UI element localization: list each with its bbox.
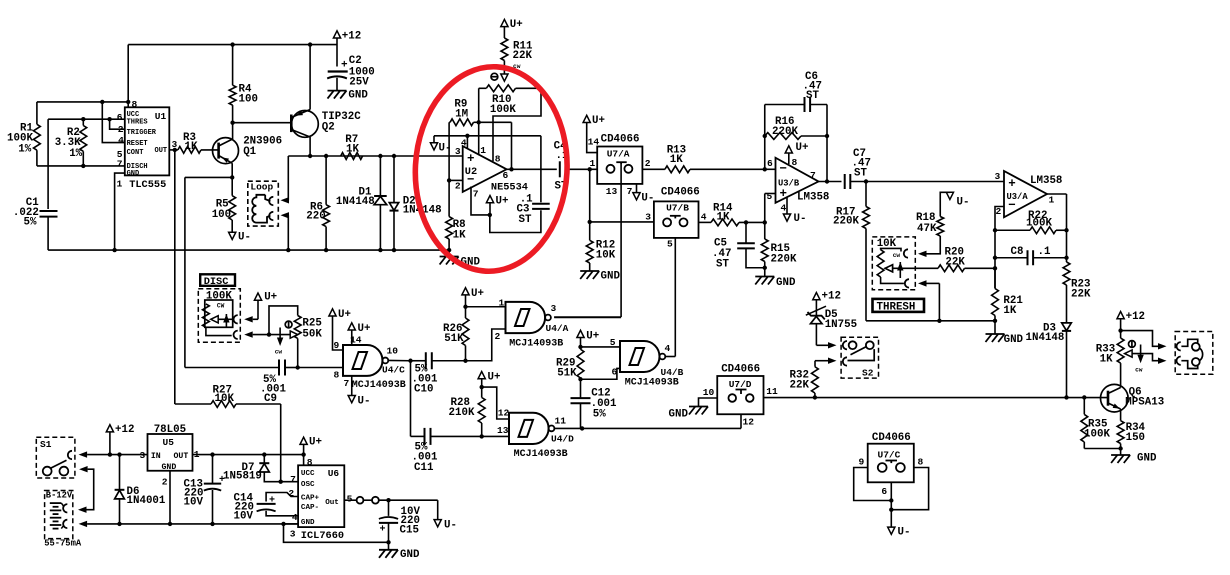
junction C13 top <box>210 452 214 456</box>
svg-text:5%: 5% <box>24 217 37 229</box>
svg-text:+: + <box>467 152 475 166</box>
junction R25 wiper node <box>267 332 271 336</box>
junction pin7/V+ <box>488 213 492 217</box>
junction R2 bottom <box>81 164 85 168</box>
wire U4/B pin6 <box>581 368 621 379</box>
svg-text:3: 3 <box>290 529 296 540</box>
junction R15 top / +in <box>763 220 767 224</box>
resistor R12 <box>586 240 593 263</box>
resistor R5 <box>229 196 236 220</box>
junction D6 top <box>117 452 121 456</box>
svg-text:THRESH: THRESH <box>877 302 916 314</box>
junction R9/R10/feedback <box>477 120 481 124</box>
junction R20/R21 node <box>993 266 997 270</box>
svg-text:5: 5 <box>767 191 773 202</box>
svg-text:100K: 100K <box>1026 218 1052 230</box>
wire R16 right leg <box>826 105 828 182</box>
wire CAP+ jog <box>266 493 298 502</box>
junction D7 top <box>262 452 266 456</box>
svg-text:10K: 10K <box>215 393 235 405</box>
svg-text:4: 4 <box>701 212 707 223</box>
svg-text:4: 4 <box>781 203 787 214</box>
junction R21 bottom <box>993 319 997 323</box>
svg-text:4: 4 <box>665 343 671 354</box>
wire U4/C pin8 <box>298 367 343 369</box>
capacitor C6 <box>765 104 805 106</box>
svg-text:22K: 22K <box>790 380 810 392</box>
junction feedback/output <box>509 167 513 171</box>
svg-text:IN: IN <box>151 452 161 461</box>
svg-text:12: 12 <box>498 408 510 419</box>
wire R23 to D3 <box>1066 285 1068 323</box>
junction V+/out rail <box>301 452 305 456</box>
transistor Q6 MPSA13 <box>1101 384 1129 412</box>
svg-text:cw: cw <box>893 252 901 259</box>
ground below R21 <box>986 333 1005 335</box>
ground below R15 <box>755 276 774 278</box>
svg-text:GND: GND <box>669 409 689 421</box>
resistor R9 <box>450 119 473 126</box>
junction R29 top <box>578 345 582 349</box>
DISC pot element <box>202 304 209 327</box>
svg-text:U+: U+ <box>338 309 351 321</box>
junction R28 top <box>480 385 484 389</box>
svg-text:GND: GND <box>1004 334 1024 346</box>
wire U3/A -in <box>995 207 1004 289</box>
ground below Q6 <box>1120 449 1122 456</box>
svg-text:U-: U- <box>957 197 970 209</box>
switch S2 dashed box <box>841 337 878 378</box>
resistor R27 <box>280 404 282 482</box>
power V+ above R11 <box>501 19 508 26</box>
svg-text:1K: 1K <box>346 144 359 156</box>
svg-text:GND: GND <box>601 271 621 283</box>
junction R15 bottom <box>763 266 767 270</box>
junction pin4 stub <box>465 134 469 138</box>
battery contacts <box>63 504 67 512</box>
DISC pot wiper <box>211 316 219 323</box>
capacitor C4 <box>559 161 561 177</box>
power V+ above R28 <box>478 372 485 379</box>
resistor R13 <box>642 168 665 170</box>
svg-text:100: 100 <box>212 209 231 221</box>
wire OUT pin3 <box>169 149 178 151</box>
junction R6 bottom <box>324 248 328 252</box>
svg-text:Loop: Loop <box>250 182 273 193</box>
junction Q2 collector / main wire <box>308 154 312 158</box>
diode D7 1N5819 <box>263 455 265 463</box>
wire inverting input <box>449 179 463 181</box>
wire U7/C pin9 loop <box>854 468 892 501</box>
power +12 at supply <box>106 425 113 432</box>
junction R28 bottom <box>480 434 484 438</box>
wire feedback to output <box>479 121 512 123</box>
wire C7 to U3/A <box>851 181 1005 183</box>
svg-text:1N4148: 1N4148 <box>336 196 375 208</box>
capacitor C5 <box>745 222 747 243</box>
svg-text:TLC555: TLC555 <box>129 179 166 191</box>
svg-text:2: 2 <box>996 206 1002 217</box>
svg-text:3: 3 <box>455 146 461 157</box>
svg-text:1: 1 <box>480 145 486 156</box>
nand gate U4/A MCJ14093B <box>506 302 546 333</box>
power V+ above R29 <box>577 330 584 337</box>
capacitor C11 <box>424 428 426 445</box>
junction R25 bottom <box>296 365 300 369</box>
svg-text:22K: 22K <box>1071 289 1091 301</box>
svg-text:U-: U- <box>641 193 654 205</box>
label DISC boxed <box>200 274 235 286</box>
power V+ at U3/B <box>785 146 792 153</box>
svg-text:220K: 220K <box>772 126 798 138</box>
junction R2 top <box>81 117 85 121</box>
wire U1 pin8/R1 top <box>37 101 128 103</box>
resistor R28 <box>478 398 485 424</box>
wire R17 down to thresh rail <box>865 229 867 321</box>
svg-text:C15: C15 <box>400 525 419 537</box>
wire U7/B pin5 to U4/B out <box>674 238 676 357</box>
svg-text:1K: 1K <box>185 141 198 153</box>
wire U6 out pin5 <box>344 499 356 501</box>
wire loop phantom top <box>287 156 289 200</box>
wire U7/A pin7 V- <box>636 184 638 193</box>
power V+ at U2 pin7 <box>486 196 493 203</box>
junction C13 bottom <box>210 522 214 526</box>
power V+ at U7/A pin14 <box>583 115 590 122</box>
wire U3/B +in <box>764 194 766 223</box>
wire R32 to S2 <box>828 358 837 364</box>
capacitor C12 <box>580 379 582 398</box>
switch U7/D CD4066 <box>717 376 763 414</box>
svg-text:GND: GND <box>1137 453 1157 465</box>
resistor R25 50K pot <box>294 316 301 339</box>
svg-text:10K: 10K <box>596 250 616 262</box>
wire R3 to Q1 base <box>201 149 219 151</box>
wire U5 out rail <box>193 454 304 456</box>
svg-text:1N4001: 1N4001 <box>127 495 166 507</box>
capacitor C7 <box>844 174 846 189</box>
wire U4/A pin1 <box>466 306 506 308</box>
resistor R29 <box>577 349 584 378</box>
junction R35/base wire <box>1082 395 1086 399</box>
battery B-12V dashed box <box>45 491 73 539</box>
wire DISC lower phantom <box>244 331 253 337</box>
junction R22 right <box>1064 228 1068 232</box>
svg-text:6: 6 <box>767 158 773 169</box>
resistor R20 <box>885 265 893 272</box>
svg-text:+12: +12 <box>115 424 134 436</box>
resistor R18 <box>937 217 944 237</box>
wire U5 GND pin2 <box>169 471 171 524</box>
wire pin7 V+ leg <box>471 187 490 215</box>
wire U6 gnd leg <box>284 523 299 525</box>
svg-text:LM358: LM358 <box>797 192 829 204</box>
svg-text:+12: +12 <box>822 291 841 303</box>
connector jack dashed box <box>1175 332 1213 375</box>
svg-text:C11: C11 <box>414 462 434 474</box>
op-amp U2 NE5534 triangle <box>463 146 507 192</box>
svg-text:cw: cw <box>275 349 283 356</box>
capacitor C1 <box>40 210 58 212</box>
wire pin4 V- row <box>434 135 493 137</box>
wire C9 <box>185 367 279 369</box>
svg-text:OSC: OSC <box>301 481 315 489</box>
switch U7/A CD4066 <box>597 147 642 184</box>
junction C15 top <box>386 498 390 502</box>
junction OUT node <box>173 148 177 152</box>
resistor R33 1K pot <box>1117 338 1124 363</box>
wire R12 branch <box>589 169 591 240</box>
R25 trim circle <box>285 321 292 328</box>
svg-text:U+: U+ <box>471 288 484 300</box>
svg-text:3: 3 <box>645 212 651 223</box>
svg-text:78L05: 78L05 <box>154 424 186 436</box>
junction R29 bottom <box>578 377 582 381</box>
THRESH cw arrow <box>899 262 901 278</box>
svg-text:1: 1 <box>1049 195 1055 206</box>
potentiometer THRESH 10K dashed box <box>872 237 915 290</box>
svg-text:S2: S2 <box>862 368 874 379</box>
wire U7/D pin10 gnd <box>699 398 718 407</box>
svg-text:−: − <box>467 173 475 187</box>
svg-text:U-: U- <box>898 527 911 539</box>
junction reset branch <box>100 100 104 104</box>
ground below R12 <box>580 270 599 272</box>
svg-text:2: 2 <box>645 158 651 169</box>
svg-text:DISC: DISC <box>204 276 229 288</box>
svg-text:8: 8 <box>334 370 340 381</box>
potentiometer R10 wiper arrow <box>503 61 505 75</box>
wire battery bottom phantom <box>79 521 88 527</box>
svg-text:7: 7 <box>810 170 816 181</box>
resistor R35 <box>1081 414 1088 442</box>
junction rail/R4 <box>230 42 234 46</box>
R33 wiper <box>1125 350 1133 357</box>
wire U1 pin4 RESET <box>102 102 125 143</box>
wire S1 top phantom <box>79 451 88 457</box>
svg-text:1: 1 <box>117 179 123 190</box>
svg-text:U+: U+ <box>510 19 523 31</box>
wire C3 bottom leg <box>490 210 541 232</box>
svg-text:5: 5 <box>347 494 353 505</box>
svg-text:25V: 25V <box>349 77 369 89</box>
capacitor C3 <box>532 203 550 205</box>
junction R16 right <box>825 134 829 138</box>
ground below C15 <box>379 549 398 551</box>
svg-text:4: 4 <box>118 135 124 146</box>
svg-text:CAP+: CAP+ <box>301 495 320 503</box>
svg-text:2: 2 <box>495 331 501 342</box>
junction +12/rail <box>108 452 112 456</box>
wire +12 top rail <box>128 44 337 46</box>
junction U5 gnd rail <box>168 522 172 526</box>
wire U2 output <box>507 168 557 170</box>
svg-text:8: 8 <box>307 457 313 468</box>
power V- below U7/C <box>888 527 895 534</box>
svg-text:100K: 100K <box>490 104 516 116</box>
wire loop phantom bottom <box>281 212 290 218</box>
svg-text:210K: 210K <box>449 407 475 419</box>
wire compensation stair <box>493 88 541 161</box>
svg-text:1N755: 1N755 <box>825 319 857 331</box>
svg-text:1K: 1K <box>670 154 683 166</box>
wire U4/A output to pin13 <box>554 317 621 319</box>
resistor R14 <box>699 221 712 223</box>
junction C7/R17 <box>864 179 868 183</box>
junction U6 gnd <box>281 522 285 526</box>
junction output/R16 <box>825 179 829 183</box>
transistor Q2 TIP32C <box>292 111 319 138</box>
resistor R21 <box>992 289 999 316</box>
svg-text:47K: 47K <box>917 223 937 235</box>
wire main collector row <box>288 155 310 157</box>
svg-text:B-12V: B-12V <box>46 491 73 501</box>
power V- below R5 <box>229 232 236 239</box>
svg-text:1K: 1K <box>1003 305 1016 317</box>
svg-text:U-: U- <box>238 232 251 244</box>
svg-text:U+: U+ <box>309 437 322 449</box>
junction U4/C out node <box>408 359 412 363</box>
svg-text:.1: .1 <box>1038 246 1051 258</box>
junction C8 right <box>1064 256 1068 260</box>
junction R8/rail <box>447 248 451 252</box>
potentiometer R10 100K <box>486 85 515 92</box>
junction D1 top <box>378 154 382 158</box>
svg-text:GND: GND <box>162 463 177 472</box>
resistor R34 <box>1117 421 1124 444</box>
wire U3/B -in <box>765 168 776 170</box>
power V+ at DISC <box>254 293 261 300</box>
svg-text:3: 3 <box>995 171 1001 182</box>
svg-text:U7/B: U7/B <box>666 203 689 214</box>
junction C15/rail <box>386 540 390 544</box>
svg-text:100K: 100K <box>1084 429 1110 441</box>
junction GND pin rail <box>112 248 116 252</box>
R33 trim circle <box>1129 341 1136 348</box>
svg-text:U-: U- <box>444 520 457 532</box>
svg-text:U4/A: U4/A <box>546 323 569 334</box>
svg-text:GND: GND <box>400 549 420 561</box>
trim circle R10 <box>491 73 498 80</box>
wire R9 left leg down <box>448 122 450 180</box>
junction C4/R12 node <box>588 167 592 171</box>
junction D7/R27 <box>279 480 283 484</box>
wire pin13 control <box>620 165 622 317</box>
resistor R23 <box>1063 262 1070 285</box>
svg-text:1%: 1% <box>69 148 82 160</box>
power +12 above R33 <box>1117 312 1124 319</box>
nand gate U4/C MCJ14093B <box>343 345 382 376</box>
junction R6 top <box>324 154 328 158</box>
svg-text:GND: GND <box>348 90 368 102</box>
svg-text:7: 7 <box>627 186 633 197</box>
wire U4/D pin12 elbow <box>482 387 509 419</box>
svg-text:1K: 1K <box>453 230 466 242</box>
svg-text:220K: 220K <box>833 216 859 228</box>
svg-text:5%: 5% <box>593 409 606 421</box>
svg-text:10V: 10V <box>184 497 204 509</box>
capacitor C10 <box>411 360 426 362</box>
resistor R1 <box>36 102 38 124</box>
svg-text:MPSA13: MPSA13 <box>1125 397 1164 409</box>
resistor R7 <box>341 153 363 160</box>
THRESH pot lower terminal <box>881 277 904 283</box>
svg-text:OUT: OUT <box>155 147 168 155</box>
svg-text:OUT: OUT <box>174 452 189 461</box>
svg-text:100: 100 <box>239 94 258 106</box>
DISC cw arrow <box>225 314 227 327</box>
junction R13/R16 node <box>763 167 767 171</box>
svg-text:+: + <box>341 60 348 72</box>
wire D5 to S2 <box>816 344 828 346</box>
junction D6 bottom <box>117 522 121 526</box>
junction loop/rail <box>286 248 290 252</box>
svg-text:2: 2 <box>288 488 294 499</box>
svg-text:Q1: Q1 <box>243 146 256 158</box>
svg-text:U6: U6 <box>328 468 340 479</box>
wire OUT branch down <box>174 150 176 404</box>
power V- below U4/C <box>351 376 353 396</box>
svg-text:3: 3 <box>140 450 146 461</box>
wire R33 wiper to jack <box>1132 354 1158 361</box>
capacitor C15 <box>388 500 390 516</box>
svg-text:TRIGGER: TRIGGER <box>127 129 157 137</box>
R33 cw arrow <box>1140 345 1142 359</box>
battery cells <box>50 502 62 504</box>
junction U7C a <box>889 498 893 502</box>
wire U1 GND pin1 <box>115 173 125 250</box>
junction D1 bottom <box>378 248 382 252</box>
wire U4/C out <box>388 359 410 361</box>
svg-text:CONT: CONT <box>127 149 144 157</box>
svg-text:2: 2 <box>455 181 461 192</box>
wire R33 top to jack <box>1121 331 1158 347</box>
junction U7C b <box>889 508 893 512</box>
resistor R2 <box>80 126 87 152</box>
svg-text:ST: ST <box>716 259 729 271</box>
junction Q1 emitter node <box>230 175 234 179</box>
svg-text:+: + <box>380 525 386 536</box>
svg-text:6: 6 <box>612 367 618 378</box>
svg-text:51K: 51K <box>444 333 464 345</box>
svg-text:CD4066: CD4066 <box>721 364 760 376</box>
wire C4 to U7/A <box>566 168 597 170</box>
svg-text:6: 6 <box>503 170 509 181</box>
svg-text:5: 5 <box>610 337 616 348</box>
svg-text:ICL7660: ICL7660 <box>301 530 344 542</box>
diode D1 1N4148 <box>379 156 381 196</box>
wire U4/B pin5 <box>581 346 621 348</box>
svg-text:MCJ14093B: MCJ14093B <box>509 339 563 350</box>
wire R18 to pot phantom <box>927 236 941 254</box>
diode D3 1N4148 <box>1062 323 1072 331</box>
svg-text:3: 3 <box>551 303 557 314</box>
potentiometer DISC dashed box <box>198 289 240 343</box>
DISC pot lower terminal <box>206 327 232 335</box>
svg-text:U4/B: U4/B <box>661 367 684 378</box>
wire U4/D output <box>555 427 742 429</box>
svg-text:U+: U+ <box>488 372 501 384</box>
ground below C2 <box>328 90 347 92</box>
resistor R17 <box>865 182 867 207</box>
junction R12/U7B <box>588 220 592 224</box>
connector circles out <box>357 497 364 504</box>
svg-text:55-75mA: 55-75mA <box>44 539 82 549</box>
node Q1 collector / R4 / Q2 base <box>230 121 234 125</box>
svg-text:U4/D: U4/D <box>551 434 574 445</box>
svg-text:CW: CW <box>217 303 225 310</box>
svg-text:Out: Out <box>325 499 339 507</box>
